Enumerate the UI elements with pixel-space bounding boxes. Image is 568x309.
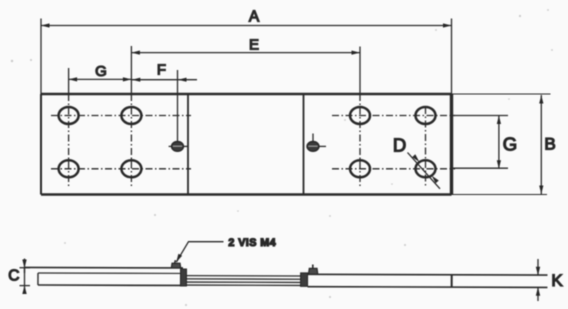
hole H5 top-right [350,107,370,124]
svg-text:A: A [249,8,260,25]
svg-text:G: G [503,133,517,154]
dimension E line [131,51,360,55]
stud S1 [169,142,188,152]
svg-text:C: C [8,267,19,284]
right clamp cap [301,273,308,287]
dimension B line [539,95,543,194]
side right bar [308,274,548,287]
side left bar [38,273,181,285]
svg-text:K: K [551,271,563,290]
svg-text:F: F [157,61,166,78]
left clamp cap [180,269,186,286]
hole H6 top-right-2 [416,107,436,124]
screw V2 head [308,264,317,274]
centerline column 1 [68,68,70,187]
centerline column 2 [130,46,132,187]
stud S2 [307,142,326,152]
side right block end divider [451,275,453,287]
dimension A line [41,23,452,27]
dimension G2 line [497,116,501,169]
hole H8 bottom-right-2 [416,160,436,177]
dimension A extension left [40,19,42,95]
hole H3 bottom-left [59,160,79,177]
svg-text:B: B [544,134,555,153]
centerline row bottom right [332,168,455,170]
hole H1 top-left [59,107,79,124]
centerline row top right [332,115,455,117]
dimension F line [131,78,197,82]
centerline row bottom left [51,168,191,170]
left block right edge divider [187,94,189,195]
top edge extension line for B [452,93,551,95]
hole H2 top-left-2 [121,107,141,124]
svg-text:G: G [95,63,107,80]
dimension K line [536,259,540,301]
side top plate [24,267,183,273]
right block left edge divider [303,94,305,195]
centerline column 4 [425,107,427,186]
dimension A extension right [451,19,453,95]
dimension C line [20,259,31,295]
svg-text:D: D [393,135,406,156]
stud S1 leader line [177,70,179,142]
bottom edge extension line for B [452,194,548,196]
dimension D leader diagonal [408,153,441,189]
svg-text:E: E [249,36,259,53]
svg-text:2 VIS M4: 2 VIS M4 [228,237,276,249]
hole H7 bottom-right [350,160,370,177]
dimension G1 line [69,77,132,81]
stud S2 tick above [312,134,314,142]
side view group [24,260,547,288]
manganin strips [186,276,300,286]
centerline row top left [51,115,191,117]
annotation 2 VIS M4 leader [176,242,223,263]
centerline column 3 [359,47,361,187]
hole H4 bottom-left-2 [121,160,141,177]
screw V1 head [171,260,180,268]
plate outline top view [41,94,452,195]
